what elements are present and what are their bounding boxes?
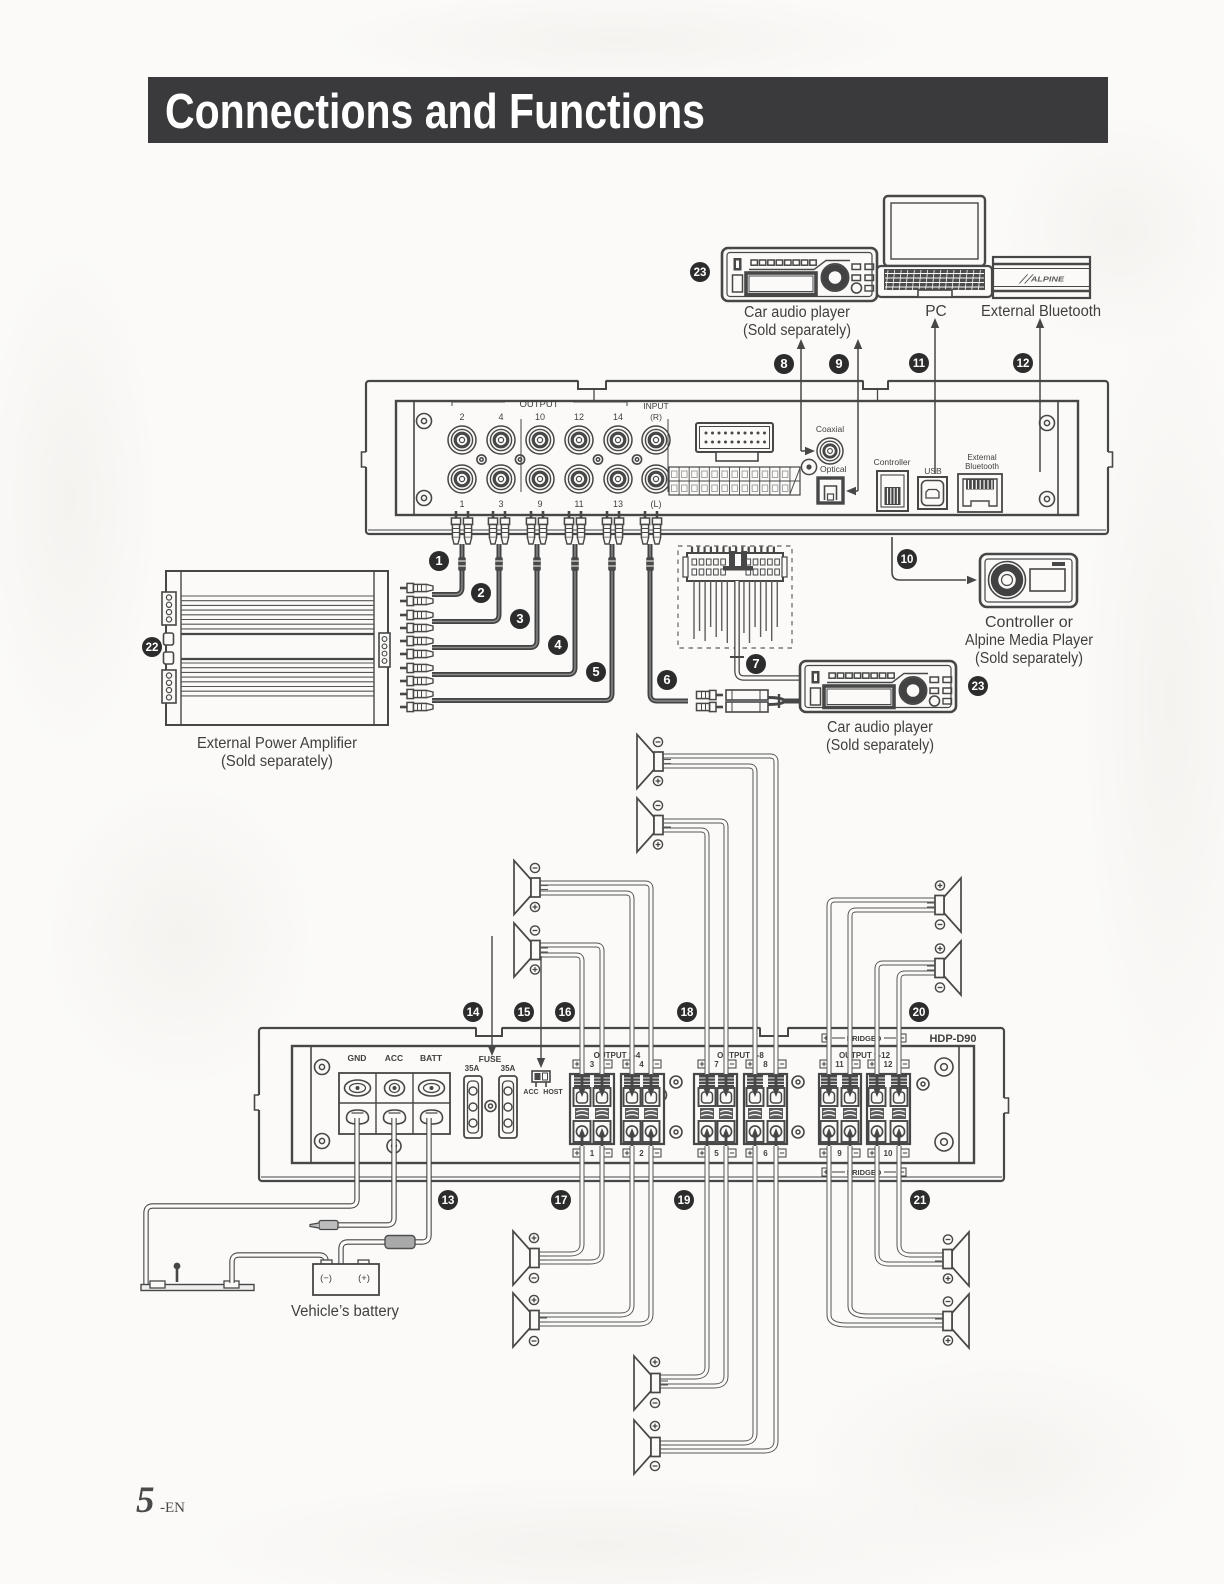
RCA plug pair to amplifier row 3 [400, 636, 433, 645]
wire [662, 756, 776, 1075]
svg-text:(R): (R) [650, 412, 662, 422]
external power amplifier [162, 571, 390, 725]
svg-text:4: 4 [498, 412, 503, 422]
svg-text:Controller: Controller [874, 457, 911, 467]
svg-text:23: 23 [972, 681, 985, 693]
callout 19 [674, 1190, 694, 1210]
svg-text:2: 2 [639, 1149, 644, 1158]
RCA plug pair under jacks col 5 [602, 511, 611, 544]
callout 20 [909, 1002, 929, 1022]
wire [539, 955, 582, 1075]
RCA plug pair under jacks col 4 [564, 511, 573, 544]
ACC/HOST switch [523, 1071, 563, 1096]
wire [662, 830, 707, 1075]
panel screws [417, 414, 432, 429]
svg-text:1: 1 [459, 499, 464, 509]
callout 5 [586, 662, 606, 682]
svg-text:11: 11 [913, 358, 926, 370]
RCA jack top row 10 [526, 426, 554, 454]
svg-text:7: 7 [752, 656, 759, 671]
svg-text:(−): (−) [320, 1273, 332, 1284]
wire (RCA cable) [432, 544, 499, 622]
wire [659, 1146, 726, 1386]
RCA jack bottom row (L) [642, 465, 670, 493]
wire [341, 1242, 387, 1264]
speaker (bottom right lower) [935, 1294, 969, 1348]
svg-text:2: 2 [477, 585, 484, 600]
PC laptop [877, 196, 992, 297]
svg-text:8: 8 [763, 1060, 768, 1069]
chassis ground strap [141, 1263, 254, 1291]
svg-text:18: 18 [681, 1007, 694, 1019]
svg-text:9: 9 [537, 499, 542, 509]
svg-text:9: 9 [837, 1149, 842, 1158]
ferrule on cable 3 [533, 557, 541, 571]
RCA plug pair to amplifier row 5 [400, 689, 433, 698]
wire [338, 1118, 394, 1225]
car audio player (top) [722, 248, 877, 301]
wire [850, 910, 936, 1075]
svg-text:3: 3 [590, 1060, 595, 1069]
svg-text:GND: GND [348, 1053, 367, 1063]
wire [538, 1146, 582, 1254]
wire [539, 945, 602, 1075]
svg-text:-EN: -EN [160, 1500, 185, 1516]
RCA jack top row 2 [448, 426, 476, 454]
inline fuse holder [385, 1236, 415, 1249]
pointer line 11 (USB to PC) [931, 318, 939, 474]
svg-text:Coaxial: Coaxial [816, 424, 844, 434]
svg-text:BATT: BATT [420, 1053, 443, 1063]
harness wires [693, 581, 695, 639]
callout 12 [1013, 353, 1033, 373]
svg-text:PC: PC [925, 303, 947, 320]
wire (RCA cable) [432, 544, 612, 701]
RCA jack top row INPUT R [642, 426, 670, 454]
label INPUT (R) [643, 401, 669, 422]
wire [829, 900, 936, 1075]
svg-text:3: 3 [516, 611, 523, 626]
svg-text:INPUT: INPUT [643, 401, 669, 411]
controller / Alpine media player device [980, 554, 1077, 607]
svg-text:12: 12 [1017, 358, 1030, 370]
wire [538, 1146, 651, 1324]
inline RCA connectors (wire 6) [697, 690, 724, 699]
wire [538, 1146, 632, 1315]
svg-text:Car audio player: Car audio player [744, 304, 850, 321]
label OUTPUT bracket [452, 399, 627, 410]
svg-text:19: 19 [678, 1195, 691, 1207]
wire [539, 893, 632, 1075]
svg-text:20: 20 [913, 1007, 926, 1019]
RCA jack top row 14 [604, 426, 632, 454]
ferrule on cable 5 [608, 557, 616, 571]
lower panel screws [315, 1060, 330, 1075]
wire (RCA cable) [432, 544, 537, 648]
pointer line 9 (optical to car audio player) [846, 339, 862, 495]
svg-text:22: 22 [146, 642, 159, 654]
RCA jack bottom row 11 [565, 465, 593, 493]
svg-text:ACC: ACC [523, 1089, 538, 1096]
wire [659, 1146, 707, 1377]
wire [737, 581, 800, 678]
svg-text:(Sold separately): (Sold separately) [975, 650, 1083, 667]
callout 21 [910, 1190, 930, 1210]
terminal label grid [669, 467, 800, 495]
callout 11 [909, 353, 929, 373]
pointer line 14 (fuse) [488, 936, 496, 1056]
pointer line 15/16 (switch) [537, 956, 545, 1068]
labels GND ACC BATT [348, 1053, 443, 1063]
speaker (bottom mid lower) [634, 1420, 668, 1474]
speaker (mid left lower) [514, 923, 548, 977]
lower unit inner panel [292, 1046, 974, 1163]
svg-text:(Sold separately): (Sold separately) [826, 737, 934, 754]
svg-text:Bluetooth: Bluetooth [965, 462, 999, 471]
svg-text:12: 12 [574, 412, 584, 422]
svg-text:Car audio player: Car audio player [827, 719, 933, 736]
title bar: Connections and Functions [148, 77, 1108, 143]
main unit rear panel chassis [362, 380, 1113, 535]
BRIDGED label bottom [822, 1168, 906, 1177]
car audio player (lower) [800, 661, 956, 712]
svg-text:8: 8 [780, 356, 787, 371]
svg-text:9: 9 [835, 356, 842, 371]
speaker (18 top) [637, 735, 671, 789]
callout 18 [677, 1002, 697, 1022]
vehicle battery [321, 1260, 332, 1265]
svg-text:4: 4 [639, 1060, 644, 1069]
RCA plug pair under jacks col 2 [488, 511, 497, 544]
svg-text:11: 11 [574, 499, 583, 509]
svg-text:23: 23 [694, 267, 707, 279]
pointer line 12 (External Bluetooth) [1036, 318, 1044, 472]
wire (RCA cable) [432, 544, 462, 595]
svg-text:15: 15 [518, 1007, 531, 1019]
svg-text:Vehicle’s battery: Vehicle’s battery [291, 1303, 399, 1320]
svg-text:External: External [967, 453, 997, 462]
wire [877, 1146, 944, 1264]
wire [829, 1146, 944, 1325]
speaker (mid left upper) [514, 861, 548, 915]
svg-text:10: 10 [901, 554, 914, 566]
RCA jack bottom row 3 [487, 465, 515, 493]
speaker (bottom mid upper) [634, 1356, 668, 1410]
svg-text:21: 21 [914, 1195, 927, 1207]
svg-text:6: 6 [663, 672, 670, 687]
svg-text:5: 5 [136, 1480, 155, 1521]
svg-text:13: 13 [442, 1195, 455, 1207]
callout 14 [463, 1002, 483, 1022]
wire (RCA cable) [432, 544, 575, 675]
wire [662, 766, 755, 1075]
callout 6 [657, 670, 677, 690]
wire [539, 883, 651, 1075]
svg-text:2: 2 [459, 412, 464, 422]
svg-text:14: 14 [613, 412, 623, 422]
power terminal block GND ACC BATT [339, 1073, 450, 1134]
svg-text:Alpine Media Player: Alpine Media Player [965, 632, 1093, 649]
callout 22 [142, 637, 162, 657]
RCA plug pair under jacks col 6 [640, 511, 649, 544]
main unit inner connection panel [396, 401, 1078, 515]
svg-text:HOST: HOST [543, 1089, 563, 1096]
callout 17 [551, 1190, 571, 1210]
External Bluetooth port (RJ45) [958, 453, 1002, 512]
Optical jack [801, 459, 846, 503]
wire [146, 1118, 357, 1284]
callout 7 [746, 654, 766, 674]
pointer line 8 (coaxial to car audio player) [797, 339, 815, 455]
pointer wire 10 (controller jack to controller) [892, 537, 977, 584]
label: Controller or Alpine Media Player (Sold separately) [965, 614, 1093, 667]
RCA jack top row 4 [487, 426, 515, 454]
RCA jack bottom row 13 [604, 465, 632, 493]
callout 23 [968, 676, 988, 696]
callout 13 [438, 1190, 458, 1210]
wire from connectors to car audio player [768, 694, 800, 708]
wire [232, 1255, 326, 1283]
svg-text:ACC: ACC [385, 1053, 403, 1063]
svg-text:7: 7 [714, 1060, 719, 1069]
RCA jack top row 12 [565, 426, 593, 454]
svg-text:35A: 35A [465, 1064, 480, 1073]
ferrule on cable 1 [458, 557, 466, 571]
small screws between jacks [477, 455, 486, 464]
speaker (18 second) [637, 798, 671, 852]
svg-text:6: 6 [763, 1149, 768, 1158]
callout 9 [829, 354, 849, 374]
svg-text:11: 11 [835, 1060, 844, 1069]
External Bluetooth box [993, 257, 1090, 298]
Coaxial jack [816, 424, 844, 464]
callout 4 [548, 635, 568, 655]
svg-text:HDP-D90: HDP-D90 [929, 1033, 976, 1045]
svg-text:5: 5 [592, 664, 599, 679]
svg-text:USB: USB [924, 466, 942, 476]
speaker (right upper) [927, 878, 961, 932]
Controller jack [874, 457, 911, 511]
page number 5-EN [136, 1480, 185, 1521]
svg-text:1: 1 [435, 553, 442, 568]
svg-text:12: 12 [884, 1060, 893, 1069]
svg-text:5: 5 [714, 1149, 719, 1158]
lower unit chassis [255, 1027, 1009, 1182]
svg-text:Connections and Functions: Connections and Functions [165, 85, 705, 139]
svg-text:(Sold separately): (Sold separately) [221, 753, 333, 770]
RCA jack bottom row 9 [526, 465, 554, 493]
harness connector [683, 547, 787, 582]
RCA plug pair under jacks col 1 [451, 511, 460, 544]
wire [877, 963, 936, 1075]
callout 1 [429, 551, 449, 571]
RCA plug pair to amplifier row 4 [400, 663, 433, 672]
callout 16 [555, 1002, 575, 1022]
RCA jack bottom row 1 [448, 465, 476, 493]
svg-text:13: 13 [613, 499, 623, 509]
ferrule on cable 4 [571, 557, 579, 571]
wire (RCA cable) [650, 544, 688, 701]
svg-text:(+): (+) [358, 1273, 370, 1284]
RCA plug pair to amplifier row 2 [400, 610, 433, 619]
wire [659, 1146, 755, 1443]
svg-text:35A: 35A [501, 1064, 516, 1073]
svg-text:OUTPUT 9-12: OUTPUT 9-12 [839, 1051, 891, 1060]
callout 2 [471, 583, 491, 603]
wire [899, 1146, 944, 1255]
label: External Power Amplifier (Sold separately) [197, 735, 358, 770]
svg-text:╱╱ALPINE: ╱╱ALPINE [1018, 274, 1066, 284]
svg-text:17: 17 [555, 1195, 568, 1207]
svg-text:3: 3 [498, 499, 503, 509]
svg-text:10: 10 [535, 412, 545, 422]
svg-text:1: 1 [590, 1149, 595, 1158]
label: Car audio player (Sold separately) [743, 304, 851, 339]
callout 10 [897, 549, 917, 569]
speaker (right lower) [927, 941, 961, 995]
wire [662, 821, 726, 1075]
svg-text:Controller or: Controller or [985, 614, 1073, 631]
wire [413, 1118, 429, 1242]
label: Car audio player (Sold separately) lower [826, 719, 934, 754]
svg-text:14: 14 [467, 1007, 480, 1019]
svg-text:OUTPUT: OUTPUT [519, 399, 558, 410]
wire [659, 1146, 776, 1451]
RCA plug pair under jacks col 3 [526, 511, 535, 544]
ribbon connector [696, 423, 773, 461]
wiring harness dashed box [678, 546, 792, 648]
svg-text:(L): (L) [651, 499, 662, 509]
callout 15 [514, 1002, 534, 1022]
BRIDGED label top [822, 1034, 906, 1043]
callout 23 [690, 262, 710, 282]
svg-text:10: 10 [884, 1149, 893, 1158]
speaker (bottom left lower) [513, 1293, 547, 1347]
svg-text:Optical: Optical [820, 464, 847, 474]
fuse holders 35A 35A [464, 1054, 517, 1138]
svg-text:16: 16 [559, 1007, 572, 1019]
svg-text:External Bluetooth: External Bluetooth [981, 303, 1101, 320]
speaker (bottom left upper) [513, 1231, 547, 1285]
ferrule on cable 2 [495, 557, 503, 571]
svg-text:(Sold separately): (Sold separately) [743, 322, 851, 339]
svg-text:4: 4 [554, 637, 562, 652]
callout 8 [774, 354, 794, 374]
wire [899, 973, 936, 1075]
callout 3 [510, 609, 530, 629]
wire [850, 1146, 944, 1316]
speaker (bottom right upper) [935, 1232, 969, 1286]
RCA plug pair to amplifier row 1 [400, 583, 433, 592]
svg-text:External Power Amplifier: External Power Amplifier [197, 735, 358, 752]
USB port [918, 466, 947, 509]
wire [538, 1146, 602, 1262]
svg-text:FUSE: FUSE [479, 1054, 502, 1064]
